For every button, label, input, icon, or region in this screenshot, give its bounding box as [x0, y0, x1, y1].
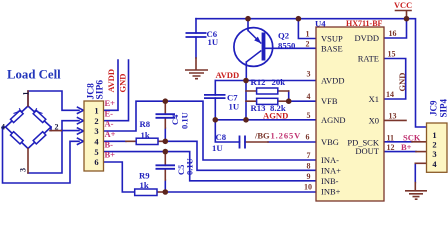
svg-text:5: 5	[94, 147, 98, 157]
svg-text:8550: 8550	[278, 41, 296, 51]
svg-text:12: 12	[387, 143, 395, 152]
svg-text:C8: C8	[216, 132, 227, 142]
svg-text:1.265V: 1.265V	[271, 131, 302, 141]
svg-text:1U: 1U	[212, 143, 223, 153]
svg-text:0.1U: 0.1U	[185, 158, 195, 175]
svg-text:INA+: INA+	[321, 165, 341, 175]
svg-text:/BG: /BG	[254, 131, 270, 141]
svg-text:13: 13	[389, 111, 397, 120]
svg-text:INA-: INA-	[321, 155, 339, 165]
svg-text:VBG: VBG	[321, 137, 339, 147]
svg-text:R12: R12	[251, 77, 266, 87]
svg-text:8: 8	[307, 161, 311, 170]
svg-text:1: 1	[94, 106, 98, 116]
svg-text:3: 3	[19, 168, 28, 172]
svg-text:AVDD: AVDD	[106, 69, 116, 92]
svg-text:1U: 1U	[208, 37, 219, 47]
svg-text:11: 11	[387, 133, 395, 142]
svg-text:5: 5	[307, 111, 311, 120]
svg-text:3: 3	[432, 149, 436, 159]
svg-text:1k: 1k	[140, 180, 149, 190]
svg-text:B+: B+	[401, 142, 412, 152]
svg-text:1: 1	[306, 30, 310, 39]
svg-text:6: 6	[306, 133, 310, 142]
svg-text:AGND: AGND	[321, 115, 346, 125]
svg-text:2: 2	[55, 123, 59, 132]
svg-text:B-: B-	[105, 139, 114, 149]
svg-text:RATE: RATE	[358, 54, 379, 64]
svg-text:VSUP: VSUP	[321, 34, 343, 44]
svg-text:E-: E-	[105, 108, 114, 118]
svg-text:INB-: INB-	[321, 176, 339, 186]
svg-text:4: 4	[1, 123, 5, 132]
svg-text:GND: GND	[397, 73, 407, 92]
svg-text:AGND: AGND	[263, 111, 288, 121]
svg-text:R9: R9	[139, 171, 150, 181]
svg-text:DOUT: DOUT	[355, 146, 379, 156]
svg-text:Load Cell: Load Cell	[7, 68, 61, 82]
svg-text:INB+: INB+	[321, 187, 341, 197]
svg-text:X1: X1	[369, 94, 379, 104]
svg-text:A-: A-	[105, 119, 114, 129]
svg-text:10: 10	[304, 183, 312, 192]
svg-text:20k: 20k	[272, 77, 286, 87]
svg-text:E+: E+	[105, 98, 116, 108]
svg-text:A+: A+	[105, 129, 116, 139]
svg-text:B+: B+	[105, 150, 116, 160]
svg-text:SCK: SCK	[403, 132, 421, 142]
svg-text:BASE: BASE	[321, 43, 343, 53]
svg-text:SIP4: SIP4	[439, 98, 448, 117]
svg-text:2: 2	[94, 116, 98, 126]
svg-text:2: 2	[306, 39, 310, 48]
svg-text:VCC: VCC	[394, 1, 412, 10]
svg-text:0.1U: 0.1U	[180, 112, 190, 129]
svg-text:JC9: JC9	[429, 100, 439, 116]
svg-text:7: 7	[307, 151, 311, 160]
svg-text:15: 15	[388, 50, 396, 59]
svg-text:6: 6	[94, 157, 98, 167]
svg-text:AVDD: AVDD	[216, 70, 240, 80]
svg-text:R8: R8	[140, 119, 151, 129]
svg-text:DVDD: DVDD	[354, 33, 379, 43]
svg-text:1: 1	[432, 130, 436, 140]
svg-text:U4: U4	[315, 19, 326, 29]
svg-text:16: 16	[389, 29, 397, 38]
svg-text:VFB: VFB	[321, 96, 338, 106]
svg-text:1: 1	[22, 92, 31, 96]
svg-text:1k: 1k	[141, 130, 150, 140]
svg-text:9: 9	[307, 172, 311, 181]
svg-text:X0: X0	[369, 115, 379, 125]
svg-text:SIP6: SIP6	[96, 80, 106, 100]
svg-text:GND: GND	[118, 74, 128, 93]
svg-text:14: 14	[386, 90, 394, 99]
svg-text:3: 3	[307, 70, 311, 79]
svg-text:2: 2	[432, 140, 436, 150]
svg-text:C4: C4	[170, 114, 180, 125]
svg-text:3: 3	[94, 126, 98, 136]
svg-text:4: 4	[307, 92, 311, 101]
svg-text:Q2: Q2	[278, 31, 289, 41]
svg-text:1U: 1U	[229, 102, 240, 112]
svg-text:HX711-BF: HX711-BF	[346, 19, 383, 28]
svg-text:AVDD: AVDD	[321, 76, 344, 86]
